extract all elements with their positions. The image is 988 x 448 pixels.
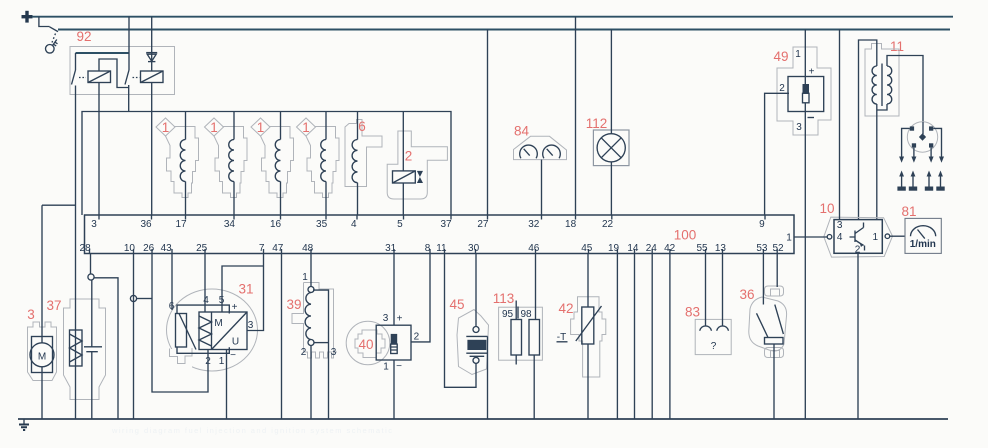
svg-text:1: 1 xyxy=(302,272,308,283)
svg-text:42: 42 xyxy=(664,243,676,254)
svg-text:M: M xyxy=(214,318,222,329)
svg-text:1: 1 xyxy=(219,356,225,367)
svg-text:1: 1 xyxy=(383,362,389,373)
svg-text:83: 83 xyxy=(685,305,700,320)
svg-text:42: 42 xyxy=(558,301,573,316)
svg-text:3: 3 xyxy=(248,320,254,331)
svg-text:7: 7 xyxy=(259,243,265,254)
svg-text:92: 92 xyxy=(76,29,91,44)
svg-text:43: 43 xyxy=(161,243,173,254)
svg-text:2: 2 xyxy=(301,347,307,358)
svg-text:4: 4 xyxy=(351,219,357,230)
svg-text:+: + xyxy=(232,302,238,313)
svg-text:2: 2 xyxy=(779,83,785,94)
svg-text:1/min: 1/min xyxy=(910,239,936,250)
svg-text:5: 5 xyxy=(397,219,403,230)
svg-text:U: U xyxy=(232,337,239,348)
svg-text:9: 9 xyxy=(759,219,765,230)
svg-text:10: 10 xyxy=(819,201,834,216)
svg-text:112: 112 xyxy=(586,116,608,131)
svg-text:wiring diagram fuel injection: wiring diagram fuel injection and igniti… xyxy=(111,426,392,435)
svg-text:36: 36 xyxy=(140,219,152,230)
svg-text:24: 24 xyxy=(646,243,658,254)
svg-text:16: 16 xyxy=(270,219,282,230)
svg-text:55: 55 xyxy=(696,243,708,254)
svg-text:3: 3 xyxy=(796,122,802,133)
svg-text:M: M xyxy=(38,352,46,363)
svg-text:84: 84 xyxy=(514,124,530,139)
svg-text:1: 1 xyxy=(162,120,170,135)
svg-text:−: − xyxy=(230,350,236,361)
svg-text:40: 40 xyxy=(358,337,373,352)
svg-text:98: 98 xyxy=(520,309,532,320)
svg-text:47: 47 xyxy=(272,243,284,254)
svg-text:−: − xyxy=(396,361,402,372)
svg-text:46: 46 xyxy=(528,243,540,254)
svg-text:37: 37 xyxy=(46,298,61,313)
svg-text:1: 1 xyxy=(873,232,879,243)
svg-text:3: 3 xyxy=(383,313,389,324)
svg-text:100: 100 xyxy=(674,228,697,243)
svg-text:32: 32 xyxy=(528,219,540,230)
svg-text:6: 6 xyxy=(358,119,366,134)
svg-text:31: 31 xyxy=(385,243,397,254)
svg-text:4: 4 xyxy=(203,295,209,306)
svg-text:17: 17 xyxy=(175,219,187,230)
svg-text:37: 37 xyxy=(440,219,452,230)
svg-text:45: 45 xyxy=(449,297,464,312)
svg-text:25: 25 xyxy=(196,243,208,254)
svg-text:34: 34 xyxy=(224,219,236,230)
svg-text:49: 49 xyxy=(773,49,788,64)
svg-text:1: 1 xyxy=(786,233,792,244)
svg-text:48: 48 xyxy=(302,243,314,254)
svg-text:52: 52 xyxy=(772,243,784,254)
svg-text:3: 3 xyxy=(331,347,337,358)
svg-text:22: 22 xyxy=(602,219,614,230)
svg-text:14: 14 xyxy=(627,243,639,254)
svg-text:53: 53 xyxy=(756,243,768,254)
svg-text:2: 2 xyxy=(414,332,420,343)
svg-text:31: 31 xyxy=(238,282,253,297)
svg-text:10: 10 xyxy=(124,243,136,254)
svg-text:18: 18 xyxy=(565,219,577,230)
svg-text:?: ? xyxy=(711,341,717,352)
svg-text:+: + xyxy=(397,314,403,325)
svg-text:36: 36 xyxy=(739,287,754,302)
svg-text:8: 8 xyxy=(425,243,431,254)
svg-text:39: 39 xyxy=(286,297,301,312)
svg-text:27: 27 xyxy=(477,219,489,230)
svg-text:11: 11 xyxy=(890,39,904,54)
svg-text:95: 95 xyxy=(502,309,514,320)
svg-text:2: 2 xyxy=(405,149,413,164)
svg-text:35: 35 xyxy=(316,219,328,230)
svg-text:3: 3 xyxy=(837,220,843,231)
svg-text:45: 45 xyxy=(581,243,593,254)
svg-text:11: 11 xyxy=(436,243,447,254)
svg-text:3: 3 xyxy=(91,219,97,230)
svg-text:4: 4 xyxy=(837,232,843,243)
svg-text:81: 81 xyxy=(901,204,916,219)
svg-text:30: 30 xyxy=(468,243,480,254)
svg-text:28: 28 xyxy=(80,243,92,254)
svg-text:19: 19 xyxy=(608,243,620,254)
svg-text:+: + xyxy=(809,67,815,78)
svg-text:26: 26 xyxy=(143,243,155,254)
svg-text:13: 13 xyxy=(715,243,727,254)
svg-text:1: 1 xyxy=(795,49,801,60)
svg-text:3: 3 xyxy=(27,307,35,322)
svg-text:113: 113 xyxy=(493,291,515,306)
